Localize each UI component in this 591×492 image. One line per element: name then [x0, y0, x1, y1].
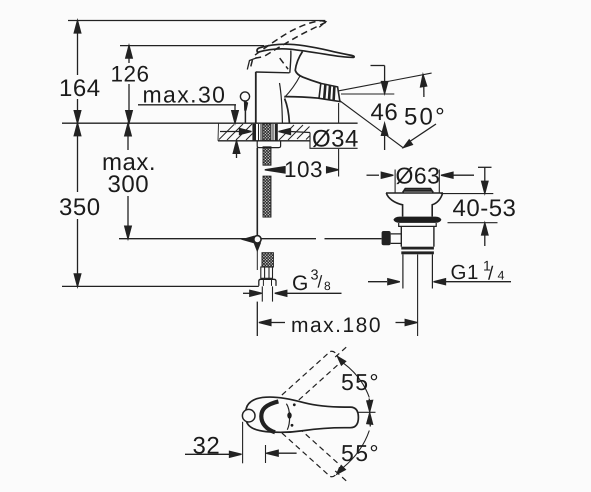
svg-text:350: 350	[59, 194, 101, 221]
svg-text:300: 300	[108, 171, 150, 198]
thread bands	[401, 247, 434, 250]
svg-text:/: /	[318, 273, 323, 292]
node dim G114	[368, 279, 511, 285]
flange	[386, 192, 443, 194]
outlet circle	[242, 409, 255, 422]
vertex arrows	[368, 399, 370, 403]
tail pipe	[402, 254, 404, 288]
svg-text:55°: 55°	[341, 369, 380, 395]
node dim 40-53	[441, 167, 498, 246]
wire popup rod horizontal	[119, 238, 316, 240]
top view	[185, 345, 376, 483]
svg-text:55°: 55°	[341, 440, 380, 466]
seal ring	[393, 217, 441, 223]
node dim D34 leader and box	[220, 129, 358, 149]
centerline at tip	[358, 411, 375, 413]
pop-up waste assembly	[382, 189, 443, 289]
rod pivot junction	[243, 236, 261, 243]
knurled knob	[382, 231, 391, 245]
svg-text:max.30: max.30	[143, 82, 227, 108]
svg-text:Ø34: Ø34	[312, 126, 359, 153]
node dim 46	[341, 66, 394, 151]
sub flange	[399, 223, 437, 226]
svg-text:164: 164	[59, 75, 101, 102]
svg-text:/: /	[488, 263, 494, 284]
node dim G38	[243, 290, 342, 296]
inner cap line	[286, 404, 289, 430]
svg-text:8: 8	[324, 279, 331, 293]
raised lever dashed	[251, 21, 326, 69]
node dim max180	[257, 255, 417, 337]
node dim164	[74, 21, 81, 124]
wire top reference line	[68, 20, 325, 22]
node dim350	[74, 123, 81, 286]
node dim126	[126, 46, 133, 124]
faucet shank through deck	[252, 124, 277, 141]
svg-text:32: 32	[193, 433, 221, 460]
node dim 50deg	[404, 75, 437, 148]
lever neck	[290, 51, 291, 73]
node dim D63	[367, 170, 475, 193]
dashed swung handle lower	[282, 422, 349, 483]
node dim 103	[265, 103, 339, 177]
spout	[295, 70, 321, 83]
wire bottom reference line	[62, 285, 259, 287]
svg-text:4: 4	[498, 269, 505, 283]
deck slab with hatching	[218, 123, 310, 141]
svg-text:50°: 50°	[404, 104, 447, 131]
dark crescent	[261, 401, 278, 432]
flexible supply hose	[259, 147, 276, 302]
55deg arc arrows	[338, 357, 346, 366]
lever base solid mark	[247, 58, 257, 70]
svg-text:40-53: 40-53	[453, 195, 517, 222]
dim 32	[242, 422, 244, 464]
pull rod knob	[240, 92, 249, 101]
faucet body side view	[240, 21, 354, 123]
vertical pop-up rod	[254, 148, 260, 270]
node dim max300	[125, 123, 132, 238]
aerator	[319, 83, 340, 101]
svg-text:46: 46	[371, 99, 399, 126]
node dim max30	[138, 105, 240, 158]
svg-text:Ø63: Ø63	[396, 163, 441, 189]
handle body top view	[246, 397, 359, 432]
mounting nut under deck	[257, 141, 280, 148]
svg-text:103: 103	[284, 157, 323, 182]
barrel	[400, 226, 402, 246]
svg-text:max.180: max.180	[291, 314, 382, 337]
wire deck top line	[62, 122, 358, 124]
solid lever	[257, 44, 354, 57]
wire spray rays	[339, 73, 432, 91]
dashed swung handle upper	[282, 345, 349, 406]
svg-text:G: G	[292, 272, 309, 295]
plug dome	[403, 189, 434, 193]
svg-text:G1: G1	[451, 261, 479, 284]
body tower	[255, 72, 257, 123]
wire 126 reference line	[120, 45, 264, 47]
handle dots	[287, 412, 291, 418]
